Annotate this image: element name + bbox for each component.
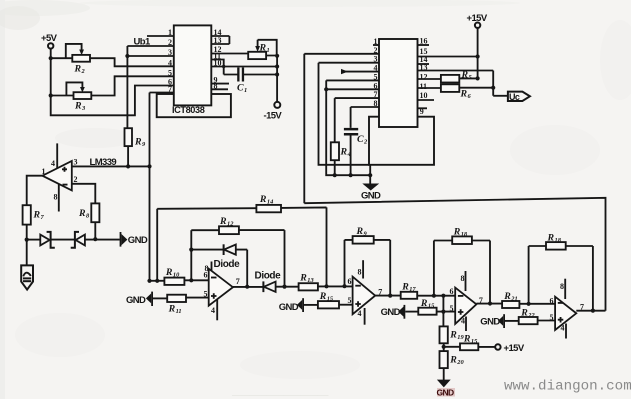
svg-text:R: R: [453, 226, 461, 237]
wire pin9 stub: [211, 83, 229, 85]
svg-text:8: 8: [54, 193, 58, 202]
svg-text:R: R: [219, 216, 227, 227]
svg-text:6: 6: [348, 277, 352, 286]
svg-text:15: 15: [471, 338, 478, 345]
input terminal (signal source): [21, 265, 33, 289]
svg-text:12: 12: [420, 72, 428, 81]
power -15V terminal: [264, 102, 283, 122]
svg-text:2: 2: [74, 175, 78, 184]
wire stage2 output: [375, 295, 401, 297]
svg-text:R: R: [78, 208, 86, 219]
wire pin11: [211, 60, 223, 75]
svg-text:18: 18: [461, 231, 468, 238]
svg-text:1: 1: [244, 87, 247, 94]
svg-text:C: C: [237, 83, 244, 94]
wire stage1 output: [233, 286, 264, 288]
svg-text:4: 4: [168, 58, 172, 67]
resistor R9b (feedback): [345, 226, 393, 298]
resistor R17: [401, 281, 456, 298]
wire -15V vertical: [276, 56, 278, 102]
wire pin14 stub: [211, 35, 229, 37]
ground GND (under IC2): [361, 165, 381, 202]
power +5V terminal: [41, 33, 58, 49]
ground port GND (R15 stage2): [279, 298, 318, 313]
svg-text:6: 6: [450, 287, 454, 296]
wire bus A (IC2 pin2 to stage4 output): [304, 198, 605, 311]
svg-text:8: 8: [461, 274, 465, 283]
wire LM339 pin3 to node: [72, 165, 150, 167]
resistor R11: [167, 295, 209, 315]
pin numbers IC1 left: [168, 28, 172, 94]
pin numbers IC2 right: [420, 37, 428, 117]
wire 8038 pin7 long vertical: [150, 93, 174, 281]
svg-text:R: R: [460, 89, 468, 100]
svg-text:1: 1: [168, 28, 172, 37]
svg-text:GND: GND: [279, 302, 299, 313]
op-amp U1 label box ICT8038: [157, 94, 231, 117]
ground port GND (diode row): [120, 232, 148, 247]
wire IC2 pin7 to R4: [335, 98, 379, 142]
wire IC2 pin9 stub: [418, 107, 428, 109]
resistor R15a: [318, 291, 353, 308]
wire pin8 stub: [211, 88, 228, 90]
svg-text:R: R: [547, 232, 555, 243]
svg-text:www.diangon.com: www.diangon.com: [504, 379, 631, 395]
comparator LM339: [42, 143, 117, 211]
resistor R20: [440, 351, 465, 380]
svg-text:R: R: [503, 291, 511, 302]
op-amp U2 label box: [369, 117, 434, 165]
resistor R15b: [418, 298, 455, 315]
svg-text:R: R: [33, 210, 41, 221]
svg-text:3: 3: [74, 158, 78, 167]
svg-text:7: 7: [168, 85, 172, 94]
svg-text:13: 13: [307, 277, 314, 284]
svg-text:Diode: Diode: [214, 259, 241, 270]
svg-text:R: R: [134, 137, 142, 148]
resistor R9 (vertical, top): [125, 128, 147, 166]
ground port GND (R11): [126, 292, 167, 306]
wire pin12 to R1: [211, 53, 248, 55]
power +15V terminal (bottom): [495, 343, 525, 354]
svg-text:1: 1: [42, 167, 46, 176]
wire bus B (feedback via R14): [157, 207, 326, 286]
resistor R7: [23, 205, 45, 265]
svg-text:22: 22: [527, 312, 535, 319]
svg-text:8: 8: [358, 268, 362, 277]
svg-text:R: R: [449, 355, 457, 366]
svg-text:GND: GND: [361, 191, 381, 202]
svg-text:+5V: +5V: [41, 33, 58, 44]
pin numbers IC2 left: [374, 37, 378, 108]
svg-text:6: 6: [550, 296, 554, 305]
svg-text:R: R: [461, 70, 469, 81]
svg-text:R: R: [74, 101, 82, 112]
svg-text:5: 5: [168, 68, 172, 77]
svg-text:17: 17: [409, 286, 416, 293]
svg-text:GND: GND: [126, 295, 146, 306]
svg-text:R: R: [74, 64, 82, 75]
resistor R13: [299, 272, 353, 290]
svg-text:GND: GND: [381, 307, 401, 318]
resistor R3 (pot): [51, 76, 174, 112]
svg-text:R: R: [340, 147, 348, 158]
wire IC2 pin14 stub: [418, 63, 430, 65]
svg-text:R: R: [356, 226, 364, 237]
output port Uc: [493, 92, 530, 102]
op-amp A4: [550, 279, 585, 339]
wire pin13 stub: [211, 36, 229, 44]
svg-text:7: 7: [236, 277, 240, 286]
svg-text:+15V: +15V: [504, 343, 525, 354]
svg-text:4: 4: [561, 324, 565, 333]
wire LM339 output to R7: [27, 176, 43, 206]
svg-text:14: 14: [267, 199, 273, 206]
wire IC2 pin15 to +15V: [418, 56, 478, 58]
svg-text:18: 18: [555, 237, 562, 244]
wire divider vertical: [442, 296, 444, 327]
wire stage4 output to bus: [576, 310, 605, 312]
resistor R22: [519, 307, 555, 324]
svg-text:15: 15: [428, 303, 435, 310]
wire LM339 pin2 to R8: [72, 184, 96, 204]
wire feedback left vertical: [190, 230, 192, 280]
svg-text:R: R: [520, 307, 528, 318]
svg-text:R: R: [259, 43, 267, 54]
svg-text:R: R: [420, 298, 428, 309]
svg-text:R: R: [463, 334, 471, 345]
wire IC2 pin2 to bus: [304, 54, 379, 203]
node stage1 input: [150, 280, 165, 282]
svg-text:Uc: Uc: [509, 92, 520, 102]
resistor R18b (feedback): [529, 232, 595, 312]
svg-text:C: C: [357, 134, 364, 145]
resistor R2 (pot): [51, 44, 174, 75]
svg-text:5: 5: [348, 296, 352, 305]
resistor R1 (pot): [248, 40, 277, 59]
svg-text:21: 21: [510, 296, 517, 303]
svg-text:Diode: Diode: [255, 270, 282, 281]
svg-text:4: 4: [211, 306, 215, 315]
wire IC2 pin1 stub: [373, 44, 379, 46]
op-amp A1: [204, 262, 240, 321]
wire IC2 pin16 stub: [418, 44, 430, 46]
power +15V terminal: [467, 13, 488, 78]
wire IC2 pin5 nest: [326, 80, 379, 175]
wire IC2 pin10 stub: [418, 99, 435, 101]
ground (bottom, red tinted): [437, 380, 456, 398]
svg-text:10: 10: [420, 91, 428, 100]
resistor R12: [191, 216, 286, 289]
svg-text:R: R: [319, 291, 327, 302]
resistor R15c to +15V: [444, 334, 495, 351]
svg-text:R: R: [299, 272, 307, 283]
svg-text:2: 2: [168, 38, 172, 47]
svg-text:1: 1: [267, 47, 270, 54]
resistor R19: [440, 326, 465, 351]
capacitor C2: [344, 128, 368, 177]
svg-text:-15V: -15V: [264, 111, 283, 122]
resistor R4: [331, 142, 351, 177]
wire bus B left vertical: [156, 209, 158, 281]
svg-text:3: 3: [168, 48, 172, 57]
op-amp A3: [450, 271, 483, 331]
resistor R10: [164, 267, 208, 285]
svg-text:ICT8038: ICT8038: [172, 105, 205, 115]
svg-text:GND: GND: [480, 317, 500, 328]
ground port GND (R15 stage3): [381, 305, 419, 319]
wire +5V rail down: [51, 49, 174, 116]
resistor R18a (feedback): [434, 226, 492, 305]
ground port GND (R22): [480, 314, 518, 328]
svg-text:15: 15: [327, 296, 334, 303]
capacitor C1: [224, 68, 277, 95]
svg-text:8: 8: [205, 264, 209, 273]
resistor R21: [502, 291, 555, 308]
pin numbers IC1 right: [214, 28, 222, 90]
diode D1 (zener clamp): [27, 232, 55, 248]
op-amp A2: [348, 260, 383, 325]
resistor R14: [256, 194, 281, 212]
diode D2 (zener clamp): [51, 232, 120, 248]
diode D4 (series): [255, 270, 299, 292]
svg-text:R: R: [401, 281, 409, 292]
op-amp U2 body: [379, 39, 418, 127]
node Ub1: [125, 37, 174, 129]
wire IC2 pin4 stub: [341, 69, 379, 74]
svg-text:GND: GND: [128, 235, 148, 246]
svg-text:R: R: [259, 194, 267, 205]
node +5V/R3: [49, 93, 53, 97]
wire IC2 pin8 to C2: [351, 107, 379, 128]
diode D3 (feedback): [189, 244, 249, 289]
svg-text:20: 20: [456, 359, 464, 366]
op-amp U1 body (ICT8038): [172, 25, 211, 115]
wire pin1 stub IC1: [147, 35, 174, 37]
svg-text:4: 4: [51, 159, 55, 168]
svg-text:GND: GND: [437, 388, 455, 398]
svg-text:─────────────────: ─────────────────: [231, 391, 329, 399]
node +5V/R2: [49, 56, 53, 60]
svg-text:10: 10: [173, 271, 180, 278]
svg-text:12: 12: [227, 221, 234, 228]
svg-text:4: 4: [461, 317, 465, 326]
svg-text:R: R: [449, 330, 457, 341]
resistor R5: [418, 70, 480, 83]
wire pin10 long: [211, 66, 277, 68]
svg-text:8: 8: [560, 282, 564, 291]
wire stage3 output: [476, 303, 502, 305]
wire IC2 pin6: [326, 88, 379, 90]
svg-text:11: 11: [176, 308, 182, 315]
wire IC2 pin13 to Uc: [418, 71, 494, 96]
resistor R6: [418, 84, 496, 100]
wire IC2 pin3 nest: [319, 63, 380, 165]
svg-text:11: 11: [420, 82, 428, 91]
svg-text:4: 4: [358, 309, 362, 318]
svg-text:R: R: [165, 267, 173, 278]
resistor R8: [78, 203, 99, 241]
svg-text:R: R: [168, 304, 176, 315]
